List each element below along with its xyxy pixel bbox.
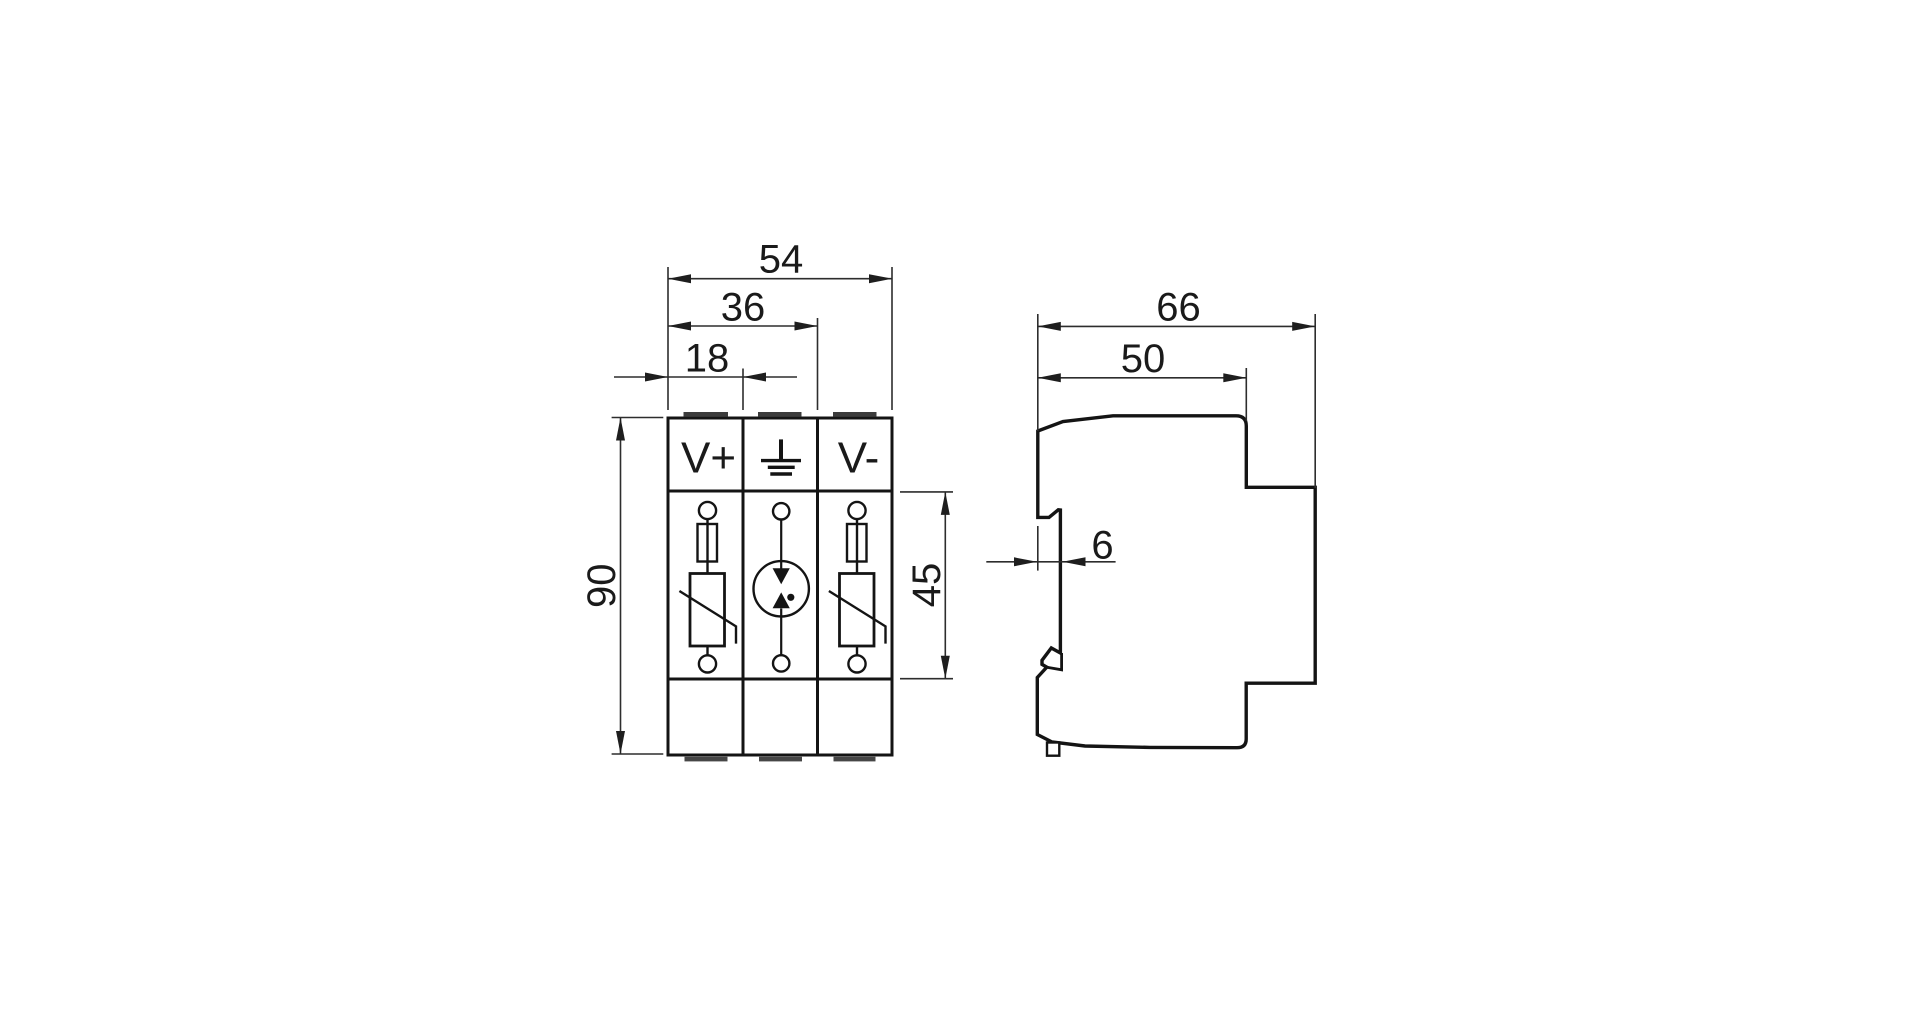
GDT upper arrow (down)	[773, 568, 790, 584]
arrow 50 right	[1223, 373, 1246, 382]
arrow 45 top	[941, 492, 950, 515]
arrow 54 left	[668, 274, 691, 283]
bottom tab module 1	[685, 757, 728, 762]
bottom tab module 3	[834, 757, 876, 762]
top tab module 2	[758, 412, 802, 417]
dimension line 45 vertical	[944, 492, 946, 679]
arrow 36 right	[795, 322, 818, 331]
dimension line 90 vertical	[620, 418, 622, 755]
svg-text:36: 36	[721, 286, 766, 330]
svg-text:18: 18	[685, 337, 730, 381]
varistor RV1 diagonal stroke	[679, 591, 736, 644]
front view: module block outline	[668, 418, 892, 755]
dimension line 66	[1038, 325, 1315, 327]
top tab module 3	[833, 412, 877, 417]
dimension extension lines side view	[986, 314, 1315, 571]
wire symbol-row bottom line	[668, 678, 892, 681]
wire module 1 vertical	[706, 519, 708, 573]
varistor RV2 diagonal stroke	[829, 591, 886, 644]
dimension line 6	[986, 561, 1115, 563]
wire module 2 lower	[780, 609, 782, 656]
wire module 3 bottom	[856, 646, 858, 655]
dimension line 50	[1038, 377, 1247, 379]
svg-text:66: 66	[1156, 286, 1201, 330]
gas discharge tube GDT circle	[754, 561, 809, 616]
arrow 36 left	[668, 322, 691, 331]
fuse F1 (module 1 disconnector)	[698, 524, 718, 562]
tick 90 bottom	[612, 753, 664, 755]
extension line side left x=1037.8	[1037, 314, 1039, 431]
arrow 66 left	[1038, 322, 1061, 331]
terminal circle bottom module 3	[848, 655, 865, 672]
arrow 90 top	[616, 418, 625, 441]
side view bottom foot	[1047, 743, 1059, 756]
svg-text:45: 45	[905, 563, 949, 608]
arrow 90 bottom	[616, 731, 625, 754]
extension line left x=668	[667, 267, 669, 410]
dimension line 36	[668, 325, 818, 327]
varistor RV2 rectangle	[840, 574, 875, 647]
wire module 1 bottom	[706, 646, 708, 655]
arrow 18 right (outside)	[743, 373, 766, 382]
arrow 45 bottom	[941, 656, 950, 679]
svg-text:V+: V+	[681, 434, 736, 483]
arrow 18 left (outside)	[645, 373, 668, 382]
side view body profile	[1037, 416, 1315, 748]
GDT lower arrow (up)	[773, 592, 790, 608]
extension line x=817.5	[817, 318, 819, 410]
varistor RV1 rectangle	[690, 574, 725, 647]
svg-text:50: 50	[1121, 337, 1166, 381]
tick 45 bottom	[900, 678, 953, 680]
terminal circle top module 1	[699, 502, 716, 519]
wire divider between module 2 and 3	[816, 418, 819, 755]
arrowheads	[616, 274, 1315, 754]
wire module 3 vertical	[856, 519, 858, 573]
tick 90 top	[612, 417, 664, 419]
DIN clip pocket bottom edge	[1047, 653, 1062, 670]
extension line right x=892	[891, 267, 893, 410]
arrow 66 right	[1292, 322, 1315, 331]
arrow 50 left	[1038, 373, 1061, 382]
extension line 6 dim	[1037, 526, 1039, 571]
tick 45 top	[900, 491, 953, 493]
extension line side right x=1315.2	[1314, 314, 1316, 488]
GDT gas-filled dot	[787, 594, 794, 601]
extension line side x=1246.3	[1245, 368, 1247, 421]
dimension line 54	[668, 278, 892, 280]
terminal circle bottom module 2	[773, 655, 789, 671]
fuse F2 (module 3 disconnector)	[847, 524, 867, 562]
terminal circle top module 2	[773, 503, 789, 519]
svg-text:54: 54	[759, 238, 804, 282]
svg-text:6: 6	[1091, 524, 1113, 568]
ground symbol	[761, 439, 801, 474]
arrow 6 right (outside)	[1063, 557, 1086, 566]
wire label-row bottom line	[668, 490, 892, 493]
svg-text:90: 90	[580, 564, 624, 609]
svg-text:V-: V-	[838, 434, 880, 483]
wire module 2 upper	[780, 520, 782, 569]
extension line x=743	[742, 369, 744, 411]
wire divider between module 1 and 2	[742, 418, 745, 755]
arrow 54 right	[869, 274, 892, 283]
top tab module 1	[684, 412, 729, 417]
bottom tab module 2	[759, 757, 802, 762]
terminal circle top module 3	[848, 502, 865, 519]
dimension extension lines front view	[612, 267, 953, 754]
dimension line 18	[614, 376, 797, 378]
terminal circle bottom module 1	[699, 655, 716, 672]
arrow 6 left (outside)	[1014, 557, 1037, 566]
